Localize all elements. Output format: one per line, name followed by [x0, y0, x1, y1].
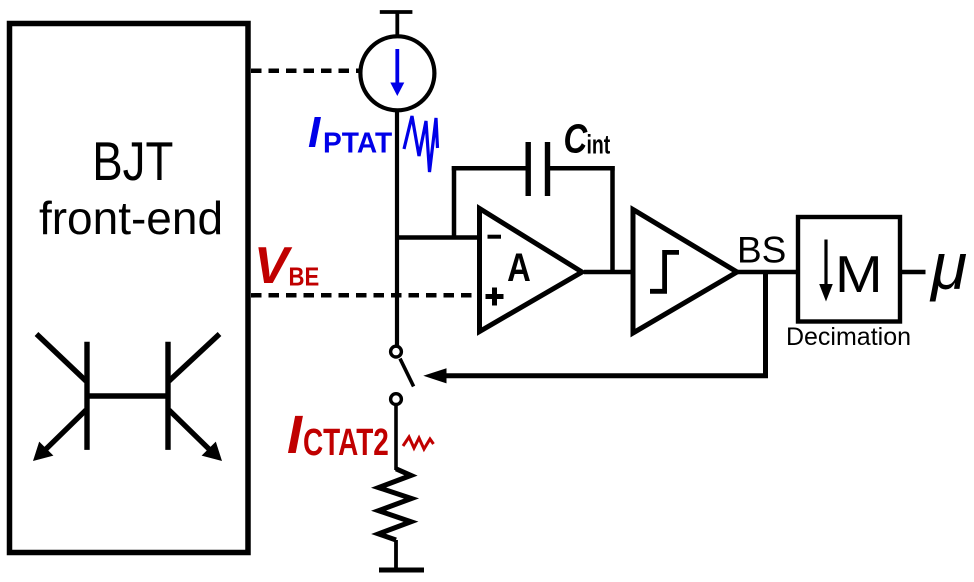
wire feedback down vertical — [763, 272, 768, 376]
capacitor C_int — [528, 142, 547, 196]
transistor Q2 (right BJT) — [168, 334, 222, 461]
supply terminal top T-bar — [380, 12, 413, 37]
resistor R1 — [379, 469, 412, 540]
svg-text:M: M — [835, 245, 883, 303]
svg-text:μ: μ — [929, 229, 967, 303]
wire feedback bottom horizontal with arrow to switch — [423, 368, 768, 383]
wire decimation output — [902, 270, 926, 275]
wire dashed from box to current source — [251, 68, 359, 73]
wire base connector between Q1 and Q2 — [85, 393, 170, 398]
current source I_PTAT — [360, 36, 434, 110]
wire feedback right vertical — [610, 166, 615, 272]
label I_CTAT2 — [287, 405, 389, 465]
wire dashed V_BE to non-inverting input — [251, 293, 478, 298]
BJT front-end box — [10, 24, 249, 553]
svg-text:BS: BS — [737, 230, 786, 271]
wire switch to resistor — [394, 405, 398, 471]
svg-text:A: A — [507, 245, 531, 290]
transistor Q1 (left BJT) — [33, 334, 87, 461]
wire op-amp output — [584, 270, 633, 275]
label BJT front-end — [39, 130, 223, 244]
wire to op-amp inverting input — [395, 235, 478, 240]
noise squiggle blue — [404, 116, 438, 172]
svg-text:CTAT2: CTAT2 — [303, 422, 389, 464]
switch S1 — [391, 346, 414, 404]
op-amp U1 — [480, 209, 583, 332]
svg-text:I: I — [287, 405, 303, 465]
ground terminal bar — [379, 568, 424, 573]
label V_BE — [254, 237, 319, 295]
label C_int — [564, 115, 611, 161]
svg-text:C: C — [564, 115, 589, 161]
decimation box M — [798, 217, 900, 322]
noise squiggle red — [403, 437, 434, 449]
svg-text:Decimation: Decimation — [786, 323, 911, 351]
wire feedback left vertical — [452, 166, 457, 238]
wire comparator output to decimation — [737, 270, 798, 275]
wire feedback top right — [550, 166, 615, 171]
svg-text:PTAT: PTAT — [323, 127, 393, 159]
wire main vertical from current source to switch — [395, 110, 399, 346]
wire feedback top left — [452, 166, 526, 171]
svg-text:V: V — [254, 237, 293, 295]
svg-text:front-end: front-end — [39, 192, 223, 244]
svg-text:int: int — [587, 129, 611, 159]
wire resistor to ground — [394, 540, 398, 569]
svg-text:BJT: BJT — [92, 130, 173, 192]
svg-text:BE: BE — [289, 263, 320, 292]
comparator U2 — [633, 210, 737, 334]
svg-text:I: I — [308, 108, 321, 157]
label I_PTAT — [308, 108, 393, 159]
